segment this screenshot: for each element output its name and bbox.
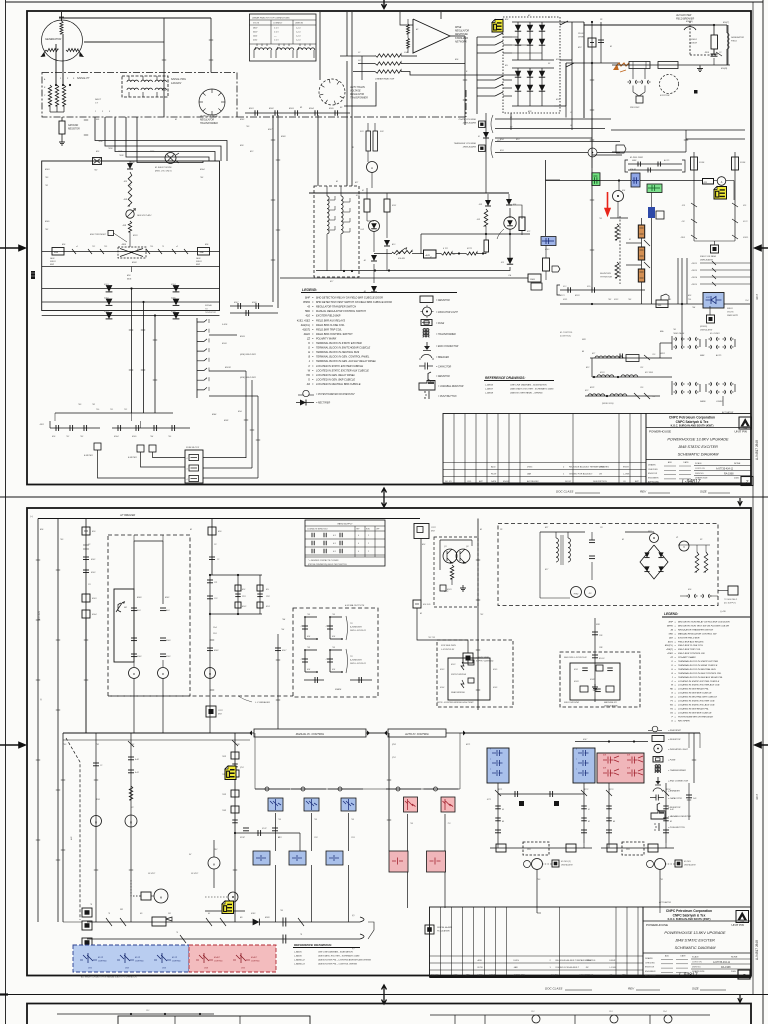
svg-text:BKR: BKR — [431, 531, 436, 533]
svg-text:(2V1: (2V1 — [392, 744, 396, 746]
chain x210 lower — [209, 614, 211, 733]
svg-text:ADD: ADD — [668, 461, 673, 464]
generator G1 circle — [42, 20, 83, 61]
long row y278 — [280, 277, 528, 279]
chain x212 fuse F7 — [211, 519, 213, 576]
svg-text:5RD: 5RD — [305, 310, 310, 313]
svg-text:* = DESIRED CONTACTS CLOSED: * = DESIRED CONTACTS CLOSED — [308, 559, 339, 562]
svg-text:750A: 750A — [118, 150, 123, 153]
spare capacitor row — [304, 679, 324, 681]
svg-text:(41E) FIELD BKR: (41E) FIELD BKR — [240, 376, 256, 379]
dashed terminal box center — [118, 247, 146, 258]
svg-text:V1: V1 — [676, 537, 678, 539]
svg-text:A/T BREAKER: A/T BREAKER — [119, 514, 136, 517]
svg-text:TERMINAL BLOCK IN NEUTRAL BUS: TERMINAL BLOCK IN NEUTRAL BUS — [678, 668, 716, 671]
blue highlight triac box — [703, 293, 724, 309]
sheet2 legend push button — [658, 823, 660, 831]
svg-text:41: 41 — [622, 538, 624, 541]
legend symbol end connector — [426, 342, 428, 349]
svg-text:2: 2 — [368, 543, 369, 545]
svg-text:41E4: 41E4 — [114, 435, 118, 438]
svg-text:BHFD: BHFD — [667, 625, 673, 627]
svg-text:(WIRE NOS): (WIRE NOS) — [602, 403, 614, 405]
svg-text:VOLTS: VOLTS — [727, 312, 734, 314]
svg-text:41E(T): 41E(T) — [302, 328, 310, 331]
svg-text:(RED. LTS. ONLY): (RED. LTS. ONLY) — [155, 171, 172, 173]
alarm output box right — [368, 922, 374, 939]
pt resistor R3 — [62, 85, 65, 106]
svg-text:FOR SEE DWG: FOR SEE DWG — [441, 645, 456, 647]
svg-text:= END CONNECTOR: = END CONNECTOR — [436, 346, 459, 348]
svg-text:41F1: 41F1 — [356, 194, 360, 197]
svg-text:41E(CL): 41E(CL) — [301, 324, 310, 327]
svg-text:40: 40 — [502, 808, 504, 811]
right cap chain far — [688, 783, 690, 820]
terminal contacts 41E8 row — [230, 312, 278, 314]
svg-text:CNPC Sabriyah & Tex: CNPC Sabriyah & Tex — [673, 914, 706, 918]
svg-text:201: 201 — [119, 909, 123, 911]
transistor cluster enclosure — [434, 537, 478, 607]
shunt CT box 2 — [658, 62, 678, 69]
svg-text:41: 41 — [352, 146, 354, 149]
rail second line left — [63, 739, 250, 741]
motor op transformer row 1 — [590, 357, 672, 359]
svg-text:41T1: 41T1 — [498, 788, 502, 791]
dc field output box — [728, 586, 738, 595]
svg-text:41M2: 41M2 — [590, 678, 595, 681]
svg-text:41E4: 41E4 — [200, 168, 204, 171]
svg-text:4: 4 — [187, 469, 188, 471]
svg-text:DRAWN: DRAWN — [648, 464, 656, 467]
svg-text:DWG: DWG — [514, 960, 520, 962]
junction transformer row 3 — [585, 395, 660, 397]
left terminal stack — [82, 908, 92, 917]
sheet2 legend end connector — [657, 777, 659, 784]
svg-text:ENGR DR: ENGR DR — [648, 473, 658, 475]
svg-text:(F): (F) — [352, 915, 355, 917]
sheet2 legend breaker — [653, 788, 663, 792]
dashed diagonal rail — [66, 738, 80, 920]
svg-text:CL4: CL4 — [663, 1010, 666, 1013]
regulator transfer cluster box — [625, 160, 628, 172]
svg-text:M: M — [130, 821, 132, 825]
sheet3 top rail left — [57, 1013, 214, 1015]
auto relay group relays — [199, 953, 209, 963]
shunt CT box 1 — [629, 62, 650, 69]
wire right feeder x686 — [685, 130, 687, 152]
fuse rect FA — [364, 199, 370, 212]
svg-text:VOLTS: VOLTS — [253, 23, 260, 25]
svg-text:41T1: 41T1 — [487, 798, 491, 801]
svg-text:Q1: Q1 — [444, 546, 447, 548]
contact 41E discharge — [716, 52, 722, 56]
upper rail y193 — [309, 192, 430, 194]
svg-text:41L1: 41L1 — [556, 98, 560, 101]
bottom contact group 1 — [50, 427, 100, 429]
svg-text:PLATE VOLTAGE: PLATE VOLTAGE — [459, 118, 477, 121]
auto relay wire 2 — [444, 814, 446, 851]
svg-text:CNPC Sabriyah & Tex: CNPC Sabriyah & Tex — [676, 420, 709, 424]
svg-text:41B1: 41B1 — [224, 419, 228, 422]
yellow highlight tag sheet2 a — [225, 766, 236, 780]
svg-text:4: 4 — [358, 543, 359, 545]
svg-text:41 AUT: 41 AUT — [251, 956, 258, 959]
svg-text:3-41E: 3-41E — [222, 323, 228, 326]
relay column blue box2 1 — [253, 851, 270, 865]
svg-text:FIELD BKR AUX RELAYS: FIELD BKR AUX RELAYS — [316, 319, 345, 322]
main rail y733 — [63, 732, 249, 734]
chain x86 capacitors — [83, 556, 89, 558]
svg-text:4160: 4160 — [253, 40, 257, 42]
svg-text:PLC ALARMS: PLC ALARMS — [437, 930, 450, 933]
wire channel to titleblock — [537, 912, 541, 914]
pt secondary staircase wire 1 — [95, 117, 227, 161]
svg-text:BUS: BUS — [127, 279, 132, 281]
channel mid row — [498, 793, 584, 795]
resistor R16 chain — [128, 221, 131, 232]
svg-text:BKR: BKR — [196, 264, 201, 266]
svg-text:754: 754 — [688, 299, 691, 301]
svg-text:CONTROL: CONTROL — [214, 961, 223, 963]
svg-text:41E13: 41E13 — [692, 269, 698, 272]
neutral grounding resistor R4 — [61, 117, 63, 121]
svg-text:BHF: BHF — [669, 622, 674, 624]
svg-text:750: 750 — [96, 409, 99, 411]
sheet2 title block company logo — [736, 911, 749, 923]
generator G1 rotor windings — [46, 49, 58, 52]
svg-text:= VARIABLE RESISTOR: = VARIABLE RESISTOR — [668, 815, 692, 818]
legend symbol indicator light — [423, 307, 432, 316]
svg-text:ISSUED FOR AS-BUILT: ISSUED FOR AS-BUILT — [556, 966, 580, 969]
mid rail y234 — [421, 233, 530, 235]
voltmeter circle 41V — [679, 541, 689, 551]
svg-text:41 REG (P): 41 REG (P) — [561, 860, 571, 863]
svg-text:CHECKED: CHECKED — [645, 962, 655, 964]
svg-text:120/240V: 120/240V — [171, 82, 182, 85]
svg-text:(NNNN): (NNNN) — [700, 326, 707, 328]
svg-text:41E11: 41E11 — [743, 237, 748, 239]
svg-text:7: 7 — [490, 769, 491, 771]
svg-text:CONNECT: CONNECT — [273, 23, 283, 25]
svg-text:754: 754 — [282, 618, 285, 621]
sheet2 legend resistor bracket — [657, 803, 660, 811]
svg-text:RESISTOR: RESISTOR — [68, 129, 80, 131]
field voltage dmm box — [711, 245, 719, 253]
svg-text:J848 STATIC EXCITER: J848 STATIC EXCITER — [677, 445, 718, 449]
transformer branch caps — [589, 539, 595, 541]
svg-text:JAR: JAR — [514, 966, 519, 969]
svg-text:41E1: 41E1 — [40, 423, 44, 426]
svg-text:FRD: FRD — [596, 624, 601, 626]
svg-text:MANUAL P.I. CONTROL: MANUAL P.I. CONTROL — [296, 732, 325, 736]
sheet3 component box left — [118, 1016, 310, 1024]
svg-text:DATE: DATE — [683, 461, 689, 464]
transistor cluster wires — [440, 539, 472, 541]
svg-text:L-94880-13: L-94880-13 — [294, 963, 305, 966]
svg-text:2400: 2400 — [253, 36, 257, 38]
svg-text:ENGR DR: ENGR DR — [645, 967, 655, 969]
sheet2 title block revision table — [430, 907, 644, 977]
dmm box on row — [528, 274, 541, 282]
thyristor bridge dotted enclosure — [503, 17, 560, 113]
svg-text:BHD DETECTION RELAY ON FIELD B: BHD DETECTION RELAY ON FIELD BKR CUBICLE… — [316, 297, 383, 300]
bridge rectifier CR2 diodes bottom — [517, 68, 519, 106]
orange column branch wires — [626, 242, 642, 244]
right edge ladder rows — [700, 262, 751, 264]
svg-text:SCHEMATIC DIAGRAM: SCHEMATIC DIAGRAM — [678, 453, 720, 457]
svg-text:41E1: 41E1 — [249, 107, 254, 110]
svg-text:41F1: 41F1 — [563, 299, 567, 301]
tick marks sheet2 — [36, 559, 40, 561]
svg-text:753B: 753B — [130, 162, 135, 164]
svg-text:x2: x2 — [176, 246, 178, 248]
svg-text:JW: JW — [586, 967, 589, 969]
svg-text:41K4: 41K4 — [440, 686, 444, 689]
sheet2 legend resistor symbol — [652, 736, 664, 742]
svg-text:FIELD: FIELD — [50, 261, 56, 263]
meter M9 with box — [141, 892, 151, 900]
svg-text:B1: B1 — [300, 107, 302, 109]
svg-text:K.O.C. BURGAN AND SOUTH (KWT): K.O.C. BURGAN AND SOUTH (KWT) — [668, 918, 711, 921]
svg-text:J848 STATIC EXCITER : SCHEMATI: J848 STATIC EXCITER : SCHEMATIC DIAG — [510, 388, 554, 391]
svg-text:GEN VOLT ADJ: GEN VOLT ADJ — [137, 214, 152, 217]
linear reactor table — [250, 14, 317, 61]
svg-text:4: 4 — [358, 551, 359, 553]
svg-text:41D1: 41D1 — [133, 234, 138, 237]
wire x478 rail — [477, 519, 479, 711]
svg-text:41E1: 41E1 — [240, 118, 244, 121]
svg-text:DISCH: DISCH — [691, 43, 698, 45]
svg-text:750: 750 — [314, 819, 317, 821]
dmm alarm square below — [709, 306, 711, 315]
row y922 components — [106, 918, 112, 926]
svg-text:41E2 TRIP RESET: 41E2 TRIP RESET — [90, 233, 107, 236]
svg-text:28V: 28V — [213, 849, 218, 851]
svg-text:= END CONNECTOR: = END CONNECTOR — [668, 781, 689, 783]
led circle CR12 — [509, 208, 511, 218]
svg-text:41 LOWER: 41 LOWER — [710, 332, 720, 335]
generator G1 stator winding — [60, 21, 63, 34]
dmm circles auto — [655, 859, 666, 870]
sheet2 drawing border — [27, 508, 751, 976]
pt secondary staircase wire 5 — [137, 117, 203, 163]
svg-text:ISSUED FOR AS-BUILT: ISSUED FOR AS-BUILT — [569, 473, 593, 476]
svg-text:2 & 3: 2 & 3 — [274, 28, 278, 30]
wire contact row drop B — [277, 115, 279, 308]
ladder long branch 3 — [209, 395, 258, 397]
relay column blue highlight 3 — [341, 798, 356, 811]
svg-text:41K6: 41K6 — [493, 686, 497, 689]
svg-text:SEE DWG L-XXXXXX-02: SEE DWG L-XXXXXX-02 — [564, 657, 588, 659]
svg-text:LOCATED IN GEN. RELAY PANEL: LOCATED IN GEN. RELAY PANEL — [316, 374, 356, 377]
exciter machine dashed circle — [660, 75, 679, 94]
svg-text:41T4: 41T4 — [666, 788, 670, 791]
autotransformer T3 taps — [329, 196, 335, 200]
svg-text:L-94815: L-94815 — [485, 384, 494, 387]
manual relay group relays — [83, 953, 93, 963]
pt resistor R2 — [55, 85, 58, 106]
scr bridge dashed box left — [437, 640, 513, 707]
svg-text:DWG NO.: DWG NO. — [692, 967, 701, 969]
capacitor row low — [131, 653, 137, 655]
separator double arrow between sheet2-3 — [382, 985, 387, 1004]
wire fu5 label — [440, 585, 446, 591]
fork group lower 2 — [711, 382, 718, 386]
svg-text:41: 41 — [430, 256, 432, 259]
svg-text:BHF: BHF — [305, 297, 310, 300]
svg-text:THYRISTOR: THYRISTOR — [205, 312, 217, 314]
svg-text:41 CONTROL: 41 CONTROL — [560, 331, 573, 334]
shunting thyristor dashed — [619, 216, 621, 284]
svg-text:(DC SUPPLY): (DC SUPPLY) — [724, 603, 736, 605]
svg-text:O: O — [671, 661, 673, 663]
sheet2 title block title block bottom bar — [430, 976, 752, 978]
svg-text:L-94816: L-94816 — [294, 955, 302, 958]
pt compartment dash-dot box — [42, 73, 237, 118]
svg-text:2005: 2005 — [731, 971, 737, 973]
svg-text:41P1: 41P1 — [590, 386, 594, 389]
separator double arrow between sheet1-2 — [382, 488, 387, 507]
rheostat RF — [116, 602, 125, 612]
svg-text:HD: HD — [670, 689, 674, 691]
svg-text:A: A — [371, 166, 373, 170]
svg-text:M: M — [95, 821, 97, 825]
svg-text:FIELD GROUND: FIELD GROUND — [564, 702, 580, 704]
chain x86 fuse F6 — [85, 519, 87, 734]
channel chain left a — [497, 783, 499, 843]
svg-text:41 CR: 41 CR — [98, 956, 104, 959]
svg-text:JAR: JAR — [527, 473, 532, 476]
wire riser to rows — [659, 343, 661, 358]
svg-text:CONTACTS WHILE B/U: CONTACTS WHILE B/U — [307, 528, 328, 531]
rectifier bridge diamond — [640, 545, 668, 579]
pt secondary staircase wire 4 — [126, 117, 209, 161]
diode CR11 — [508, 194, 510, 199]
sheet1 right margin line — [752, 2, 754, 497]
4-20ma outputs dashed box — [293, 608, 378, 697]
svg-text:GROUND: GROUND — [68, 125, 79, 127]
svg-text:7: 7 — [576, 749, 577, 751]
svg-text:DRAWN: DRAWN — [645, 957, 653, 960]
sheet2 title block company block — [643, 907, 751, 977]
svg-text:F1: F1 — [548, 17, 550, 19]
wire navy column down — [651, 218, 653, 304]
svg-text:A-94817 J848: A-94817 J848 — [755, 440, 759, 460]
svg-text:L-1968: L-1968 — [610, 967, 617, 969]
svg-text:L-94815: L-94815 — [294, 951, 302, 954]
svg-text:CHECKED: CHECKED — [648, 469, 658, 471]
svg-text:C1: C1 — [100, 765, 102, 767]
right rails down — [693, 733, 695, 783]
svg-text:LOCATED IN NEUTRAL BKR CUBICLE: LOCATED IN NEUTRAL BKR CUBICLE — [316, 383, 361, 386]
green highlight tag A — [592, 173, 600, 186]
svg-text:RA-1968: RA-1968 — [724, 472, 734, 475]
relay column blue box2 2 — [289, 851, 306, 865]
svg-text:1 & 3: 1 & 3 — [274, 40, 278, 42]
svg-text:750: 750 — [307, 647, 310, 649]
svg-text:ENGR: ENGR — [610, 960, 616, 962]
power transformer T4 — [556, 538, 558, 562]
lower rail y270 — [316, 270, 494, 272]
svg-text:600V: 600V — [253, 32, 258, 34]
highlight yellow tag 1 — [492, 20, 503, 33]
meter M5 dca — [717, 177, 726, 186]
svg-text:AUTO: AUTO — [715, 354, 722, 357]
sheet1 title block size letter box — [741, 477, 753, 486]
relay column wire 2 — [311, 813, 313, 851]
scr bridge inner box — [448, 658, 490, 700]
wire columns converge — [693, 236, 695, 241]
svg-text:POWERHOUSE: POWERHOUSE — [649, 430, 671, 434]
svg-text:41 AUT: 41 AUT — [214, 956, 221, 959]
svg-text:= PUSH BUTTON: = PUSH BUTTON — [438, 396, 457, 398]
blue highlight tag C — [541, 237, 556, 246]
svg-text:751: 751 — [448, 823, 451, 825]
exciter power dashed box — [498, 524, 718, 606]
sheet3 separator down arrow right — [738, 995, 742, 1003]
wire field bottom rail — [612, 64, 730, 66]
svg-text:LOCATED IN STATIC EXCITER AUX: LOCATED IN STATIC EXCITER AUX CUB — [678, 684, 720, 687]
svg-text:(PROVE OPERATION) FIELD TEST S: (PROVE OPERATION) FIELD TEST SWITCH — [308, 563, 347, 566]
svg-text:G: G — [671, 693, 673, 695]
svg-text:LOCATED IN GEN RELAY PNL: LOCATED IN GEN RELAY PNL — [678, 688, 710, 691]
breaker connector box x210 — [206, 706, 216, 717]
rail x389 down — [388, 733, 390, 851]
right drops x246-258 — [245, 371, 247, 458]
orange resistor R13b — [638, 225, 644, 238]
wire breaker to field — [688, 24, 714, 26]
svg-text:41: 41 — [420, 612, 422, 615]
svg-text:MACHINE NO: MACHINE NO — [604, 701, 617, 704]
diode CR4 — [507, 258, 513, 264]
sheet2 title block size letter box — [738, 970, 750, 979]
field ground inner box — [570, 663, 620, 700]
pmg exciter circle dashed — [319, 79, 345, 105]
bottom row wires y922 — [87, 921, 360, 923]
autotransformer T3 winding left — [327, 196, 329, 234]
verticals to main row — [677, 258, 679, 304]
svg-text:750: 750 — [332, 647, 335, 649]
svg-text:R1: R1 — [700, 539, 702, 541]
svg-text:L-1968: L-1968 — [623, 474, 630, 476]
svg-text:DMM ALARM: DMM ALARM — [463, 122, 476, 125]
svg-text:41EO: 41EO — [667, 652, 673, 655]
separator arrow top center — [382, 0, 387, 9]
svg-text:CR1: CR1 — [88, 968, 92, 970]
svg-text:AUTO TRANS: AUTO TRANS — [349, 86, 365, 89]
svg-text:41M: 41M — [96, 798, 100, 801]
svg-text:750B: 750B — [235, 744, 240, 746]
wire drops from table to T3 — [346, 61, 348, 186]
field discharge resistor R5 — [711, 35, 718, 49]
svg-text:LOCATED IN GEN BKR CUBICLE: LOCATED IN GEN BKR CUBICLE — [678, 692, 712, 695]
svg-text:ZZ: ZZ — [669, 657, 673, 659]
svg-text:41E12: 41E12 — [692, 262, 698, 265]
relay column blue box2 3 — [326, 851, 343, 865]
svg-text:AUX EXCITER: AUX EXCITER — [675, 14, 692, 17]
svg-text:41C2: 41C2 — [743, 221, 748, 223]
svg-text:= FUSE: = FUSE — [668, 760, 676, 762]
svg-text:JW: JW — [599, 474, 602, 476]
svg-text:78: 78 — [108, 913, 110, 915]
diode CR9 — [371, 286, 377, 292]
svg-text:41L: 41L — [505, 64, 508, 67]
legend symbol breaker — [421, 354, 432, 358]
svg-text:BHFD: BHFD — [303, 301, 310, 304]
svg-text:PULSE: PULSE — [578, 33, 585, 35]
wire drops from table — [346, 12, 348, 56]
svg-text:FIELD BKR CONTROL SW: FIELD BKR CONTROL SW — [678, 653, 706, 655]
